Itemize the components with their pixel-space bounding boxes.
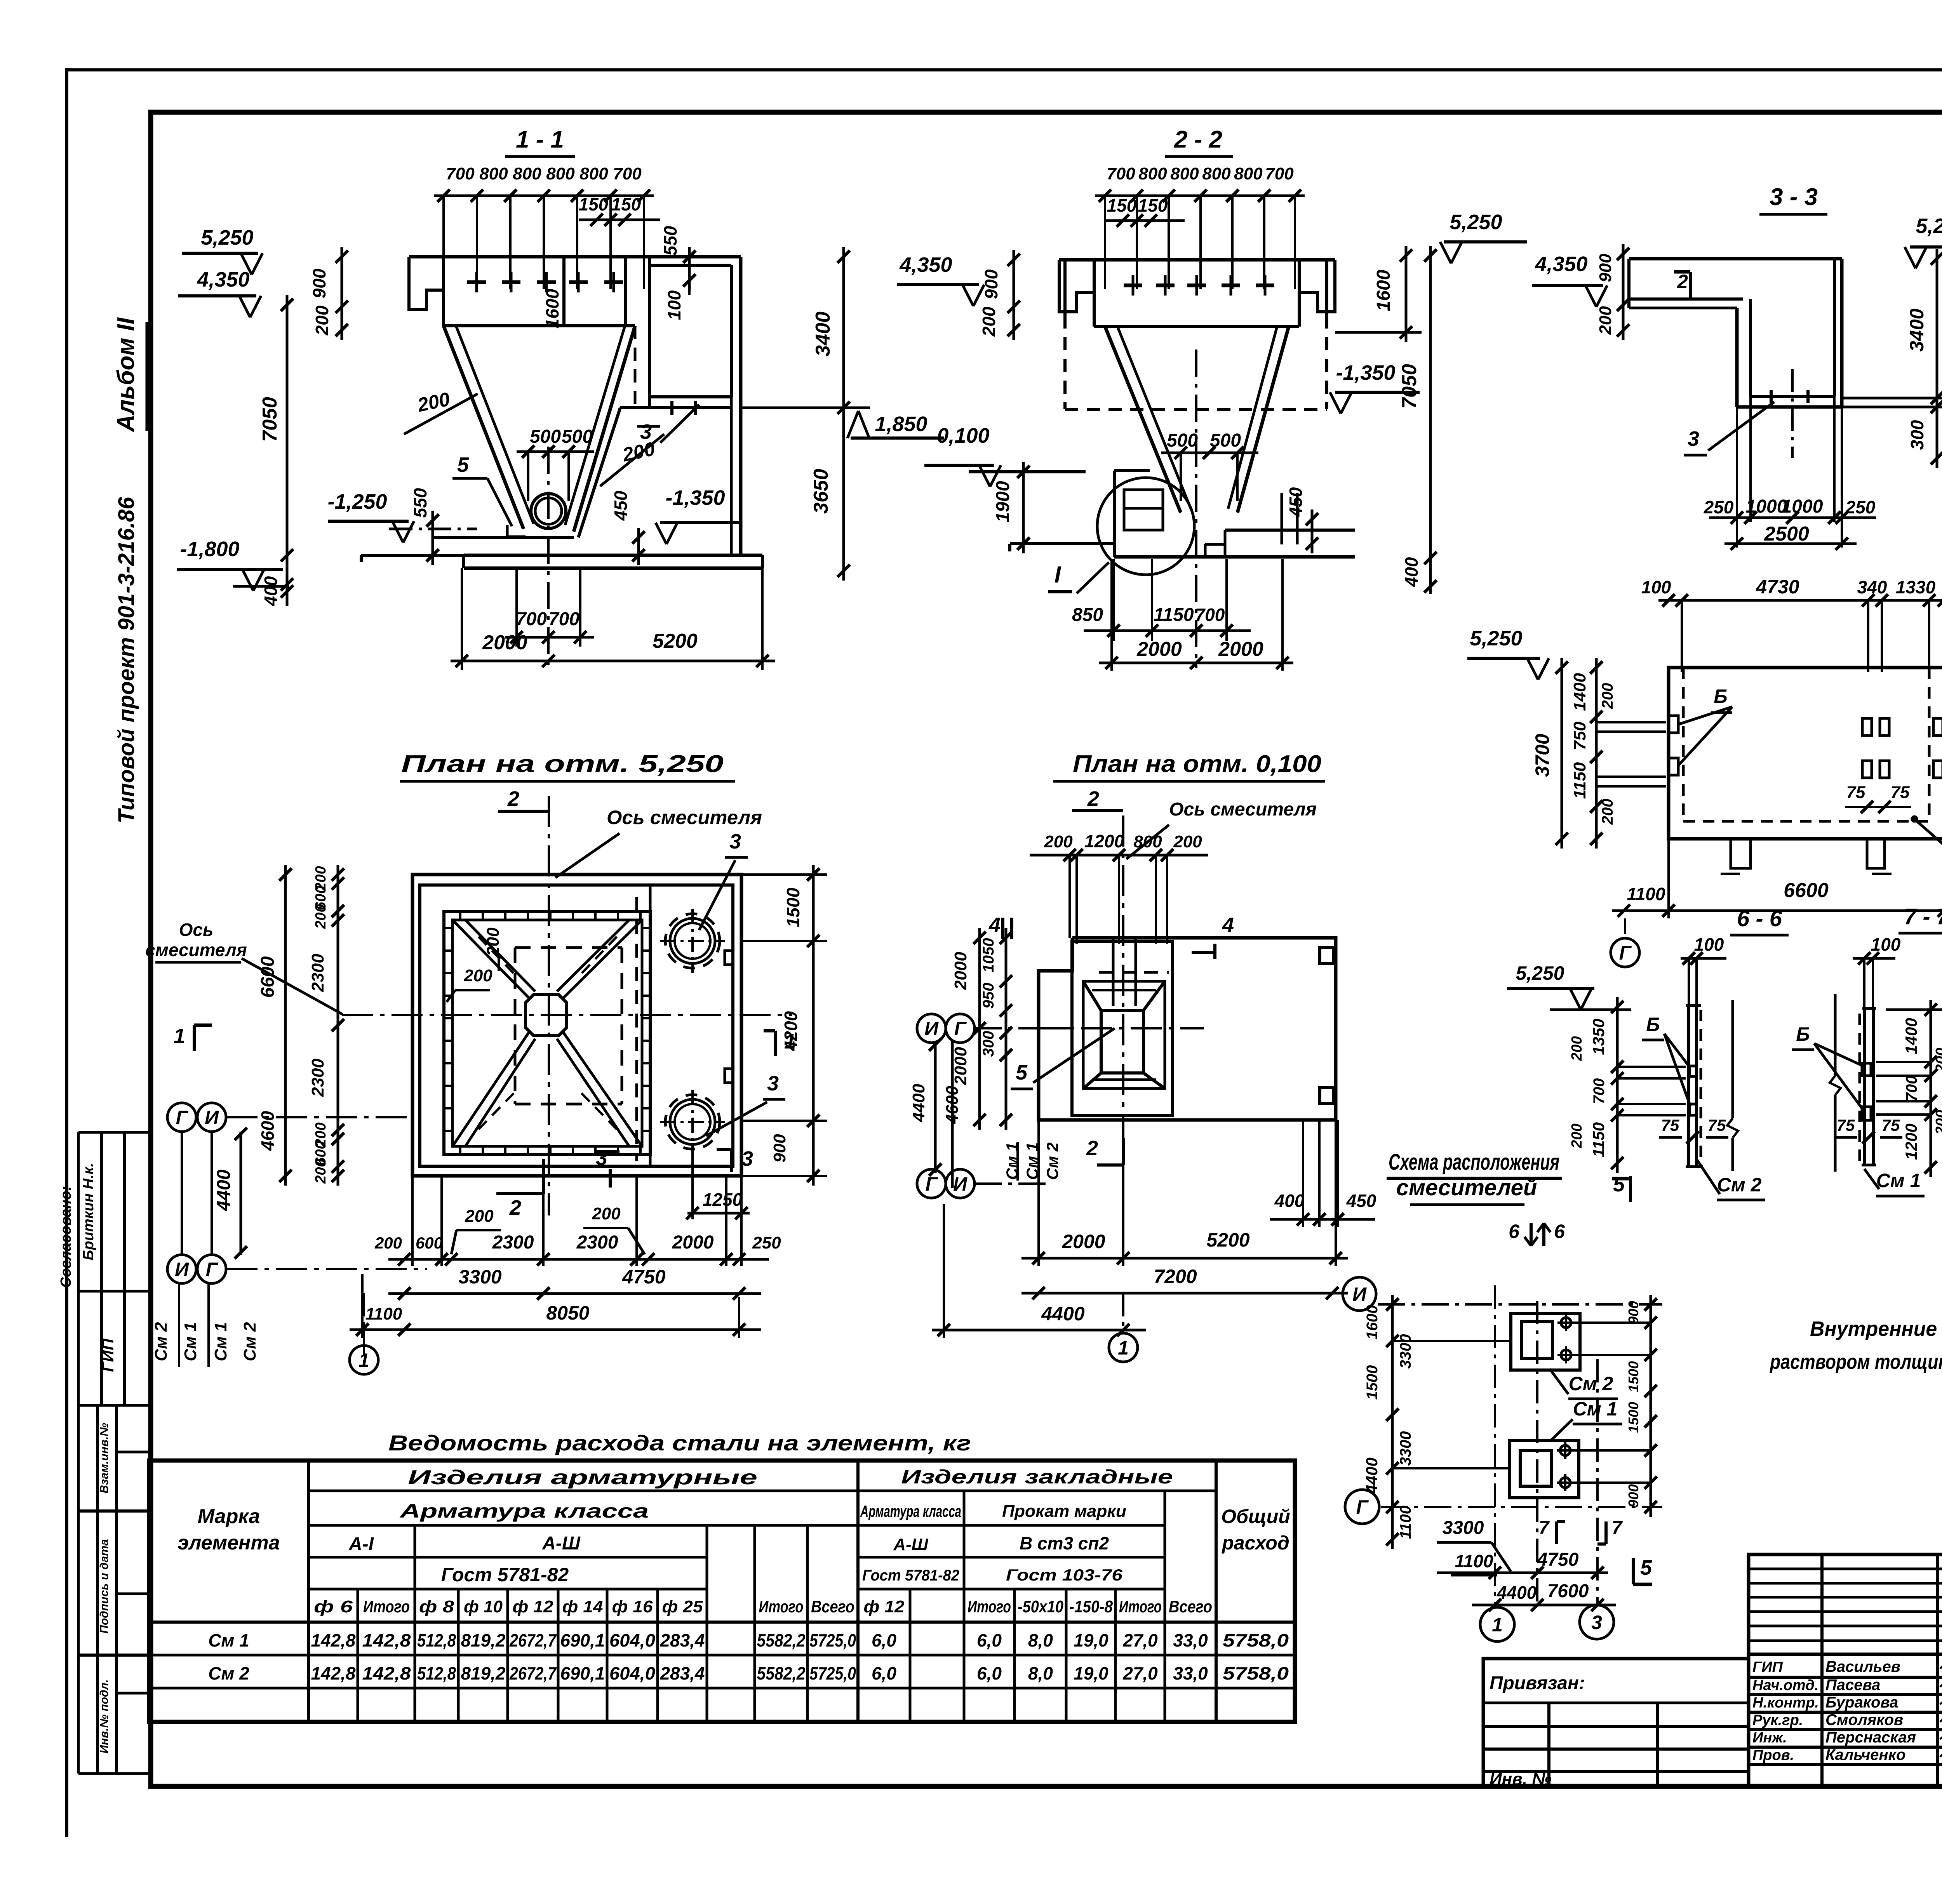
section 1-1 funnel bottom block	[507, 525, 526, 537]
svg-text:ф 12: ф 12	[864, 1597, 905, 1616]
svg-text:2: 2	[507, 787, 519, 810]
svg-text:5,250: 5,250	[201, 226, 253, 249]
svg-text:200: 200	[1596, 306, 1615, 335]
section 1-1 right dims 3400 3650	[842, 247, 845, 581]
section 2-2 right floor	[1225, 529, 1355, 532]
section 6-6 wall strip	[1687, 1005, 1690, 1167]
plan 0.100 bottom dim row 3	[932, 1329, 1146, 1332]
svg-text:512,8: 512,8	[417, 1630, 456, 1650]
svg-text:604,0: 604,0	[609, 1630, 655, 1650]
svg-text:150: 150	[1138, 195, 1168, 216]
plan 5.250 axis 1 circle bottom	[363, 1293, 365, 1367]
section 5-5 dim 3700	[1561, 658, 1563, 849]
svg-text:Рук.гр.: Рук.гр.	[1752, 1712, 1803, 1728]
svg-text:5,250: 5,250	[1516, 962, 1564, 984]
svg-text:800: 800	[513, 164, 541, 183]
section 1-1 chamber anchors	[670, 401, 673, 415]
svg-text:1: 1	[1118, 1337, 1129, 1359]
svg-text:7 - 7: 7 - 7	[1904, 904, 1942, 929]
plan 5.250 funnel opening	[444, 911, 650, 1155]
svg-text:0,100: 0,100	[937, 424, 989, 447]
svg-text:раствором толщиной 15 мм: раствором толщиной 15 мм с железнением п…	[1769, 1350, 1942, 1374]
svg-text:700: 700	[1590, 1078, 1608, 1104]
section 1-1 right slab inner lines	[648, 397, 651, 408]
svg-text:1500: 1500	[1625, 1361, 1641, 1392]
svg-text:Инв. №: Инв. №	[1490, 1770, 1552, 1789]
svg-text:5: 5	[1640, 1556, 1652, 1579]
svg-text:Взам.инв.№: Взам.инв.№	[98, 1423, 111, 1493]
svg-text:4,350: 4,350	[197, 268, 249, 291]
sheet outer border	[65, 68, 68, 1837]
svg-text:5582,2: 5582,2	[757, 1630, 806, 1650]
svg-text:75: 75	[1708, 1116, 1726, 1134]
svg-text:5758,0: 5758,0	[1223, 1663, 1289, 1683]
svg-text:4200: 4200	[781, 1011, 801, 1051]
svg-text:33,0: 33,0	[1173, 1630, 1208, 1650]
svg-text:1050: 1050	[980, 938, 997, 973]
svg-text:2300: 2300	[492, 1232, 534, 1253]
svg-text:283,4: 283,4	[660, 1630, 705, 1650]
section 3-3 bottom anchors	[1770, 390, 1773, 403]
svg-text:900: 900	[1625, 1301, 1641, 1324]
panel 1 legs	[1731, 839, 1751, 868]
svg-text:Итого: Итого	[759, 1597, 804, 1616]
svg-text:1150: 1150	[1589, 1122, 1608, 1157]
svg-text:3300: 3300	[1397, 1334, 1414, 1369]
plan 0.100 outline	[1039, 938, 1336, 1120]
svg-text:200: 200	[1933, 1110, 1942, 1135]
scheme axis circle 1	[1480, 1607, 1514, 1641]
svg-text:800: 800	[1133, 832, 1162, 851]
panel 1 anchors	[1669, 716, 1678, 733]
scheme right dims	[1650, 1295, 1652, 1517]
svg-text:Всего: Всего	[1169, 1597, 1212, 1616]
svg-text:Г: Г	[206, 1259, 219, 1280]
svg-text:800: 800	[1202, 164, 1231, 183]
svg-text:75: 75	[1882, 1116, 1900, 1134]
section 1-1 left small dims 900/200	[341, 247, 343, 340]
svg-text:4400: 4400	[1041, 1303, 1084, 1325]
svg-text:200: 200	[312, 305, 332, 336]
svg-text:3: 3	[741, 1147, 753, 1170]
section 2-2 detail circle I	[1097, 478, 1194, 575]
svg-text:8,0: 8,0	[1028, 1630, 1053, 1650]
scheme axis I circle	[1343, 1277, 1376, 1311]
svg-text:3300: 3300	[458, 1266, 501, 1288]
svg-text:2: 2	[509, 1196, 521, 1219]
svg-text:1500: 1500	[783, 887, 803, 927]
svg-text:Г: Г	[1356, 1496, 1369, 1518]
svg-text:ф 8: ф 8	[419, 1597, 454, 1616]
section 6-6 right extent line	[1731, 1000, 1734, 1118]
section 7-7 extent line	[1834, 994, 1837, 1076]
svg-text:2000: 2000	[482, 631, 527, 654]
svg-text:6,0: 6,0	[872, 1630, 896, 1650]
svg-text:-1,350: -1,350	[665, 486, 725, 509]
svg-text:700: 700	[1265, 164, 1294, 183]
section 1-1 floor and foundation	[361, 554, 464, 557]
title block signature table	[1749, 1654, 1942, 1786]
section 1-1 right chamber	[648, 257, 651, 397]
svg-text:1500: 1500	[1625, 1402, 1641, 1433]
svg-text:3: 3	[729, 830, 741, 853]
svg-text:200: 200	[484, 927, 503, 956]
svg-text:ГИП: ГИП	[99, 1338, 117, 1372]
section 2-2 left dims 900/200	[1013, 250, 1015, 340]
plan 0.100 axis 1 circle	[1122, 1293, 1124, 1328]
svg-text:1 - 1: 1 - 1	[516, 126, 564, 153]
section 1-1 drain pipe	[531, 494, 566, 529]
svg-text:5582,2: 5582,2	[757, 1663, 806, 1683]
svg-text:700: 700	[1903, 1076, 1920, 1102]
svg-text:800: 800	[479, 164, 508, 183]
svg-text:200: 200	[1569, 1036, 1585, 1061]
plan 5.250 bottom dim row 2	[388, 1292, 761, 1295]
section 1-1 bottom dims 2000 5200	[461, 568, 463, 670]
svg-text:900: 900	[1625, 1484, 1641, 1508]
svg-text:В ст3 сп2: В ст3 сп2	[1020, 1533, 1109, 1553]
svg-text:5725,0: 5725,0	[809, 1630, 856, 1650]
svg-text:200: 200	[465, 1207, 494, 1226]
svg-text:150: 150	[1107, 195, 1137, 216]
svg-text:2000: 2000	[1061, 1231, 1105, 1252]
section 1-1 dims 550/100 right of slab	[688, 247, 691, 290]
svg-text:Арматура класса: Арматура класса	[399, 1500, 649, 1522]
svg-text:Б: Б	[1796, 1023, 1810, 1045]
svg-text:-50x10: -50x10	[1018, 1597, 1063, 1616]
title block revision table	[1749, 1554, 1942, 1654]
svg-text:27,0: 27,0	[1122, 1663, 1158, 1683]
svg-text:700: 700	[613, 164, 642, 183]
svg-text:8050: 8050	[546, 1302, 589, 1324]
attachment table box	[1483, 1659, 1749, 1786]
svg-text:300: 300	[1907, 420, 1927, 450]
plan 0.100 bottom dim row 2	[1021, 1292, 1348, 1295]
svg-text:Всего: Всего	[811, 1597, 854, 1616]
svg-text:Гост 5781-82: Гост 5781-82	[441, 1564, 569, 1586]
svg-text:-1,350: -1,350	[1336, 361, 1395, 384]
svg-text:6600: 6600	[1784, 879, 1829, 902]
svg-text:200: 200	[313, 1159, 329, 1184]
scheme bottom dims row 2	[1472, 1604, 1616, 1607]
svg-text:Пасева: Пасева	[1825, 1676, 1880, 1694]
svg-text:850: 850	[1072, 605, 1103, 625]
svg-text:700: 700	[516, 609, 547, 629]
svg-text:200: 200	[1933, 1048, 1942, 1073]
svg-text:3400: 3400	[812, 311, 834, 356]
scheme Cm2 anchors	[1561, 1318, 1571, 1328]
svg-text:200: 200	[1599, 683, 1616, 709]
svg-text:3700: 3700	[1531, 734, 1553, 777]
svg-text:2000: 2000	[672, 1232, 714, 1253]
svg-text:Ведомость расхода стали: Ведомость расхода стали на элемент, кг	[388, 1431, 971, 1455]
plan 0.100 axis circles lower	[917, 1169, 946, 1198]
svg-text:2672,7: 2672,7	[509, 1630, 557, 1650]
svg-text:1900: 1900	[993, 481, 1013, 522]
svg-text:75: 75	[1661, 1116, 1679, 1134]
svg-text:И: И	[924, 1018, 939, 1040]
svg-text:819,2: 819,2	[461, 1630, 506, 1650]
svg-text:Г: Г	[1619, 942, 1632, 964]
svg-text:1200: 1200	[1084, 831, 1124, 851]
svg-text:4,350: 4,350	[1535, 252, 1587, 276]
svg-text:450: 450	[611, 490, 631, 521]
left margin stamp boxes	[78, 1131, 151, 1134]
title block signatures squiggles	[1940, 1662, 1942, 1671]
svg-text:План на отм. 5,250: План на отм. 5,250	[401, 751, 724, 777]
svg-text:Итого: Итого	[1119, 1597, 1162, 1616]
svg-text:1600: 1600	[542, 289, 562, 329]
steel table vertical lines	[307, 1461, 310, 1722]
svg-text:1150: 1150	[1570, 762, 1589, 799]
svg-text:3: 3	[767, 1072, 779, 1095]
svg-text:200: 200	[374, 1234, 402, 1252]
svg-text:4,350: 4,350	[899, 253, 952, 276]
svg-text:400: 400	[1274, 1191, 1305, 1211]
svg-text:3650: 3650	[810, 469, 832, 514]
scheme mixer vertical centerline	[1536, 1301, 1538, 1608]
svg-text:Б: Б	[1646, 1014, 1660, 1035]
svg-text:1400: 1400	[1902, 1018, 1920, 1054]
svg-text:ф 25: ф 25	[662, 1597, 703, 1616]
svg-text:1100: 1100	[1455, 1551, 1493, 1571]
plan 5.250 hatch circle bottom	[670, 1099, 715, 1144]
svg-text:3 - 3: 3 - 3	[1770, 184, 1818, 210]
section 7-7 wall strip	[1863, 1009, 1866, 1165]
section 1-1 bottom dims 700 700	[515, 568, 518, 647]
plan 5.250 left dim 4400	[240, 1132, 242, 1255]
svg-text:ф 10: ф 10	[464, 1597, 503, 1616]
svg-text:500: 500	[562, 426, 593, 447]
steel table horizontal lines	[149, 1621, 1295, 1624]
svg-text:смесителя: смесителя	[145, 940, 247, 960]
svg-text:См 1: См 1	[1876, 1170, 1921, 1191]
svg-text:1200: 1200	[1902, 1123, 1920, 1160]
svg-text:2 - 2: 2 - 2	[1174, 126, 1222, 153]
svg-text:4: 4	[988, 913, 1001, 937]
svg-text:2300: 2300	[308, 954, 327, 992]
plan 0.100 centerlines	[1031, 1027, 1204, 1029]
section 2-2 funnel walls	[1105, 327, 1181, 513]
svg-text:смесителей: смесителей	[1396, 1175, 1537, 1200]
svg-text:3: 3	[1591, 1612, 1602, 1633]
svg-text:5725,0: 5725,0	[809, 1663, 856, 1683]
section 1-1 funnel walls	[444, 326, 524, 529]
plan 0.100 left dims	[1005, 928, 1008, 1130]
svg-text:4400: 4400	[1497, 1582, 1537, 1603]
svg-text:700: 700	[446, 164, 475, 183]
svg-text:ГИП: ГИП	[1752, 1659, 1783, 1675]
svg-text:900: 900	[981, 269, 1001, 299]
svg-text:Внутренние поверхности с: Внутренние поверхности смесителя оштукат…	[1810, 1317, 1942, 1341]
svg-text:1500: 1500	[1364, 1365, 1381, 1400]
plan 0.100 axis circles mid	[917, 1014, 946, 1043]
svg-text:450: 450	[1286, 487, 1306, 517]
svg-text:ф 6: ф 6	[314, 1597, 353, 1616]
svg-text:4750: 4750	[622, 1266, 665, 1288]
svg-text:800: 800	[579, 164, 608, 183]
svg-text:142,8: 142,8	[362, 1630, 411, 1650]
svg-text:И: И	[953, 1173, 968, 1195]
svg-text:1,850: 1,850	[875, 412, 927, 436]
scheme centerline axis 1	[1494, 1285, 1496, 1608]
svg-text:4750: 4750	[1537, 1549, 1579, 1570]
svg-text:250: 250	[1845, 497, 1876, 517]
svg-text:6: 6	[1509, 1221, 1520, 1242]
section 7-7 anchors	[1862, 1063, 1871, 1076]
svg-text:Ось: Ось	[179, 920, 214, 940]
steel table outer box	[149, 1461, 1295, 1722]
svg-text:500: 500	[530, 426, 561, 447]
section 2-2 hidden tank outline	[1063, 315, 1067, 409]
svg-text:1600: 1600	[1364, 1305, 1381, 1340]
svg-text:И: И	[205, 1107, 219, 1128]
svg-text:И: И	[175, 1259, 189, 1280]
svg-text:4: 4	[1222, 913, 1234, 937]
svg-text:Итого: Итого	[363, 1597, 410, 1616]
section 3-3 centerline	[1791, 369, 1794, 458]
svg-text:Г: Г	[926, 1173, 938, 1195]
svg-text:1: 1	[174, 1024, 185, 1048]
svg-text:4400: 4400	[1363, 1457, 1381, 1494]
svg-text:5200: 5200	[653, 630, 698, 652]
section 2-2 dim 1900	[1022, 462, 1025, 553]
svg-text:См 2: См 2	[1717, 1174, 1762, 1196]
scheme left dims	[1391, 1295, 1394, 1549]
svg-text:Ось смесителя: Ось смесителя	[1169, 799, 1317, 820]
plan 5.250 bottom dim row 3	[350, 1328, 761, 1331]
svg-text:800: 800	[1170, 164, 1199, 183]
svg-text:1100: 1100	[365, 1304, 402, 1323]
plan 0.100 bottom dim row 1	[1037, 1120, 1040, 1266]
section 2-2 top slab	[1059, 258, 1335, 262]
svg-text:Пров.: Пров.	[1752, 1747, 1794, 1763]
svg-text:ф 14: ф 14	[562, 1597, 603, 1616]
svg-text:7050: 7050	[259, 397, 281, 442]
svg-text:Привязан:: Привязан:	[1490, 1673, 1585, 1694]
svg-text:Итого: Итого	[968, 1597, 1011, 1616]
svg-text:1400: 1400	[1570, 673, 1589, 711]
svg-text:1350: 1350	[1589, 1019, 1608, 1055]
svg-text:142,8: 142,8	[311, 1630, 356, 1650]
svg-text:6: 6	[1554, 1221, 1565, 1242]
svg-text:690,1: 690,1	[560, 1630, 605, 1650]
plan 0.100 funnel walls block	[1072, 941, 1173, 1115]
section 2-2 top dimension row	[1095, 195, 1305, 197]
svg-text:1100: 1100	[1627, 884, 1665, 904]
svg-text:Марка: Марка	[198, 1505, 260, 1528]
svg-text:-1,250: -1,250	[327, 490, 387, 513]
svg-text:Согласовано:: Согласовано:	[58, 1186, 74, 1288]
svg-text:2: 2	[1086, 1137, 1098, 1160]
scheme mixer Cm2 box	[1511, 1313, 1580, 1370]
svg-text:400: 400	[261, 576, 281, 606]
svg-text:1: 1	[1492, 1614, 1503, 1636]
svg-text:2000: 2000	[951, 1047, 970, 1085]
svg-text:5200: 5200	[1206, 1229, 1249, 1251]
svg-text:690,1: 690,1	[560, 1663, 605, 1683]
svg-text:6,0: 6,0	[977, 1663, 1002, 1683]
svg-text:75: 75	[1837, 1116, 1855, 1134]
svg-text:4400: 4400	[214, 1169, 234, 1211]
svg-text:1330: 1330	[1896, 577, 1936, 597]
plan 5.250 hidden opening dashed	[515, 946, 622, 949]
svg-text:Подпись и дата: Подпись и дата	[98, 1539, 111, 1633]
svg-text:900: 900	[770, 1134, 789, 1163]
svg-text:-1,800: -1,800	[180, 537, 239, 561]
svg-text:200: 200	[1569, 1123, 1585, 1148]
svg-text:3: 3	[596, 1146, 607, 1170]
plan 5.250 axes dash-dot	[342, 1014, 792, 1016]
svg-text:500: 500	[1167, 430, 1198, 451]
svg-text:А-I: А-I	[348, 1534, 374, 1554]
svg-text:5: 5	[1016, 1061, 1028, 1084]
svg-text:Буракова: Буракова	[1825, 1694, 1898, 1711]
svg-text:2300: 2300	[576, 1232, 618, 1253]
svg-text:См 2: См 2	[208, 1663, 249, 1683]
plan 5.250 right dims 1500 4200 900	[812, 865, 815, 1186]
svg-text:142,8: 142,8	[362, 1663, 411, 1683]
plan 5.250 center octagon	[526, 995, 567, 1036]
plan 5.250 hatch ticks inner square	[459, 911, 461, 920]
svg-text:7200: 7200	[1154, 1266, 1197, 1287]
svg-text:3300: 3300	[1443, 1518, 1484, 1538]
section 2-2 slab anchors	[1132, 275, 1135, 296]
svg-text:6600: 6600	[258, 956, 278, 998]
svg-text:ф 16: ф 16	[612, 1597, 653, 1616]
svg-text:250: 250	[752, 1233, 781, 1252]
plan 5.250 bottom dim row 1	[411, 1176, 414, 1266]
scheme mixer Cm1 box	[1510, 1440, 1579, 1498]
plan 5.250 left axis circles upper	[167, 1103, 196, 1132]
svg-text:1: 1	[358, 1349, 369, 1371]
svg-text:1250: 1250	[703, 1189, 743, 1210]
scheme axis G circle	[1345, 1490, 1379, 1524]
svg-text:Прокат марки: Прокат марки	[1002, 1502, 1126, 1521]
svg-text:900: 900	[1596, 254, 1615, 282]
svg-text:Гост 103-76: Гост 103-76	[1006, 1566, 1123, 1584]
svg-text:512,8: 512,8	[417, 1663, 456, 1683]
svg-text:200: 200	[1599, 799, 1616, 825]
scheme Cm1 anchors	[1560, 1445, 1570, 1455]
svg-text:См 1: См 1	[1573, 1398, 1618, 1420]
svg-text:550: 550	[660, 226, 680, 256]
svg-text:142,8: 142,8	[311, 1663, 356, 1683]
svg-text:283,4: 283,4	[660, 1663, 705, 1683]
svg-text:7050: 7050	[1398, 364, 1421, 409]
svg-text:расход: расход	[1221, 1532, 1289, 1554]
svg-text:6,0: 6,0	[872, 1663, 896, 1683]
svg-text:100: 100	[1694, 934, 1724, 955]
svg-text:400: 400	[1401, 557, 1422, 587]
plan 0.100 inlet channel	[1112, 938, 1115, 1006]
svg-text:Альбом II: Альбом II	[113, 317, 139, 433]
svg-text:Кальченко: Кальченко	[1825, 1746, 1905, 1763]
svg-text:7600: 7600	[1547, 1581, 1589, 1601]
section 2-2 pit	[1113, 471, 1116, 557]
plan 5.250 left dim sub	[337, 865, 339, 1186]
svg-text:См 1: См 1	[211, 1322, 230, 1361]
svg-text:Инж.: Инж.	[1752, 1730, 1787, 1746]
section 1-1 slab anchors	[475, 272, 478, 292]
plan 5.250 left axis circles lower	[167, 1255, 196, 1283]
svg-text:6 - 6: 6 - 6	[1737, 906, 1782, 931]
svg-text:элемента: элемента	[177, 1532, 280, 1554]
svg-text:2300: 2300	[308, 1059, 327, 1097]
svg-text:2500: 2500	[1764, 523, 1809, 545]
svg-text:950: 950	[980, 983, 997, 1009]
svg-text:5,250: 5,250	[1916, 214, 1942, 238]
